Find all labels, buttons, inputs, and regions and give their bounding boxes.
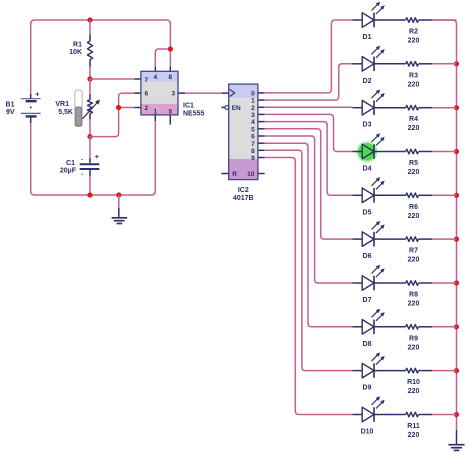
4017 output 10 stub [258, 173, 265, 175]
wire output 0 to D1 [258, 92, 265, 94]
resistor R7 220 [374, 237, 457, 264]
wire output 6 to D7 [258, 135, 265, 137]
wire VR1/C1 junction to 555 pins 2,6 [90, 108, 119, 137]
svg-text:D3: D3 [363, 122, 372, 129]
svg-text:8: 8 [168, 74, 172, 81]
resistor R4 220 [374, 105, 457, 132]
555 pin numbers [144, 74, 175, 115]
junction of V+ at pins 4/8 [168, 46, 173, 51]
svg-text:B1: B1 [6, 102, 15, 109]
svg-text:5,5K: 5,5K [58, 109, 73, 116]
4017 R input stub [221, 173, 228, 175]
LED D3 [353, 90, 385, 129]
svg-text:IC1: IC1 [183, 103, 194, 110]
resistor R8 220 [374, 281, 457, 308]
svg-text:5: 5 [251, 126, 255, 133]
svg-text:7: 7 [251, 141, 255, 148]
svg-text:D6: D6 [363, 253, 372, 260]
svg-text:9V: 9V [6, 109, 15, 116]
junction C1 / ground rail [87, 192, 92, 197]
junction bus / R7 [454, 237, 459, 242]
wire: 555 pin 1 lead [154, 115, 156, 121]
svg-text:5: 5 [168, 108, 172, 115]
resistor R11 220 [374, 412, 457, 439]
svg-text:R7: R7 [409, 248, 418, 255]
svg-text:VR1: VR1 [55, 101, 69, 108]
wire output 8 to D9 [258, 149, 265, 151]
LED D1 [353, 2, 385, 41]
green glow of lit LED D4 [356, 141, 377, 162]
svg-text:7: 7 [144, 77, 148, 84]
svg-text:220: 220 [408, 344, 420, 351]
LED D6 [353, 221, 385, 260]
junction VR1 bottom [87, 134, 92, 139]
battery B1 9V [30, 94, 32, 99]
svg-text:0: 0 [251, 91, 255, 98]
svg-text:1: 1 [251, 98, 255, 105]
svg-text:IC2: IC2 [238, 187, 249, 194]
IC U1 NE555 body [141, 71, 178, 115]
LED D7 [353, 265, 385, 304]
wire 555 pin 3 to 4017 clock [178, 92, 185, 94]
svg-text:+: + [95, 152, 100, 161]
IC U2 4017B body [229, 84, 258, 180]
svg-text:R11: R11 [407, 423, 420, 430]
junction V+ rail / R1 top [87, 17, 92, 22]
svg-text:NE555: NE555 [183, 111, 205, 118]
svg-text:D8: D8 [363, 341, 372, 348]
junction bus / R8 [454, 280, 459, 285]
resistor R9 220 [374, 325, 457, 352]
svg-text:220: 220 [408, 432, 420, 439]
svg-text:1: 1 [153, 108, 157, 115]
svg-text:3: 3 [171, 91, 175, 98]
svg-text:R1: R1 [73, 42, 82, 49]
wire: V+ rail from battery to R1 and 555 pins 4,8 [31, 20, 171, 94]
wire output 7 to D8 [258, 142, 265, 144]
LED D10 [353, 396, 385, 435]
svg-text:3: 3 [251, 112, 255, 119]
resistor R1 10K [89, 20, 91, 35]
wire: bottom ground rail [31, 121, 156, 195]
junction bus / R6 [454, 193, 459, 198]
junction bus / R5 [454, 149, 459, 154]
resistor R5 220 [374, 149, 457, 176]
svg-text:D4: D4 [363, 166, 372, 173]
svg-text:C1: C1 [66, 160, 75, 167]
capacitor C1 20uF [89, 137, 91, 158]
junction R1 bottom / pin 7 [87, 76, 92, 81]
svg-text:220: 220 [408, 257, 420, 264]
svg-text:D1: D1 [363, 34, 372, 41]
svg-text:-: - [81, 158, 83, 164]
4017 clock chevron [230, 89, 235, 96]
svg-text:D10: D10 [361, 429, 374, 436]
svg-text:-: - [81, 172, 83, 178]
svg-text:10K: 10K [69, 49, 82, 56]
svg-text:2: 2 [251, 105, 255, 112]
svg-text:R9: R9 [409, 335, 418, 342]
svg-text:R5: R5 [409, 160, 418, 167]
ground symbol (left) [118, 195, 120, 208]
svg-text:D7: D7 [363, 297, 372, 304]
wire: junction to 555 pin 4 [155, 49, 170, 67]
wire output 9 to D10 [258, 157, 265, 159]
svg-text:6: 6 [251, 134, 255, 141]
svg-text:220: 220 [408, 38, 420, 45]
LED D4 [353, 133, 385, 172]
LED D9 [353, 352, 385, 391]
svg-text:2: 2 [144, 105, 148, 112]
ground symbol (right) [456, 430, 458, 444]
svg-text:R10: R10 [407, 379, 420, 386]
wire output 2 to D3 [258, 106, 265, 108]
svg-text:+: + [35, 90, 40, 99]
junction bus / R3 [454, 61, 459, 66]
junction ground symbol / rail [116, 192, 121, 197]
svg-text:220: 220 [408, 301, 420, 308]
resistor R10 220 [374, 368, 457, 395]
junction bus / R11 [454, 412, 459, 417]
svg-text:10: 10 [247, 171, 255, 178]
LED D2 [353, 46, 385, 85]
svg-text:R2: R2 [409, 29, 418, 36]
555 pin 5 stub [169, 115, 171, 125]
svg-text:220: 220 [408, 388, 420, 395]
svg-text:6: 6 [144, 91, 148, 98]
svg-text:4017B: 4017B [233, 195, 254, 202]
svg-text:R8: R8 [409, 292, 418, 299]
svg-text:4: 4 [251, 119, 255, 126]
svg-text:R6: R6 [409, 204, 418, 211]
svg-text:220: 220 [408, 169, 420, 176]
resistor R3 220 [374, 62, 457, 89]
4017 output numbers 0-9 [251, 91, 255, 163]
4017 EN input with bubble [225, 106, 229, 110]
junction bus / R4 [454, 105, 459, 110]
resistor R2 220 [374, 18, 457, 45]
wire output 1 to D2 [258, 99, 265, 101]
wire R1-junction to 555 pin 7 [90, 78, 135, 80]
svg-text:220: 220 [408, 213, 420, 220]
wire: junction to 555 pin 8 [169, 49, 171, 67]
junction bus / R10 [454, 368, 459, 373]
svg-text:R4: R4 [409, 116, 418, 123]
svg-text:R3: R3 [409, 72, 418, 79]
svg-text:D2: D2 [363, 78, 372, 85]
LED D8 [353, 309, 385, 348]
svg-text:8: 8 [251, 148, 255, 155]
svg-text:D5: D5 [363, 209, 372, 216]
resistor R6 220 [374, 193, 457, 220]
wire output 3 to D4 [258, 113, 265, 115]
wire output 4 to D5 [258, 121, 265, 123]
junction bus / R9 [454, 324, 459, 329]
wire output 5 to D6 [258, 128, 265, 130]
junction pins 2/6 [116, 105, 121, 110]
svg-text:20µF: 20µF [60, 168, 77, 175]
svg-text:EN: EN [232, 105, 241, 112]
LED D5 [353, 177, 385, 216]
svg-text:4: 4 [153, 74, 157, 81]
variable resistor VR1 5,5K [89, 79, 91, 94]
svg-text:R: R [232, 171, 237, 178]
svg-text:9: 9 [251, 155, 255, 162]
svg-text:D9: D9 [363, 385, 372, 392]
svg-text:220: 220 [408, 125, 420, 132]
right V+ bus [432, 20, 457, 430]
svg-text:220: 220 [408, 81, 420, 88]
